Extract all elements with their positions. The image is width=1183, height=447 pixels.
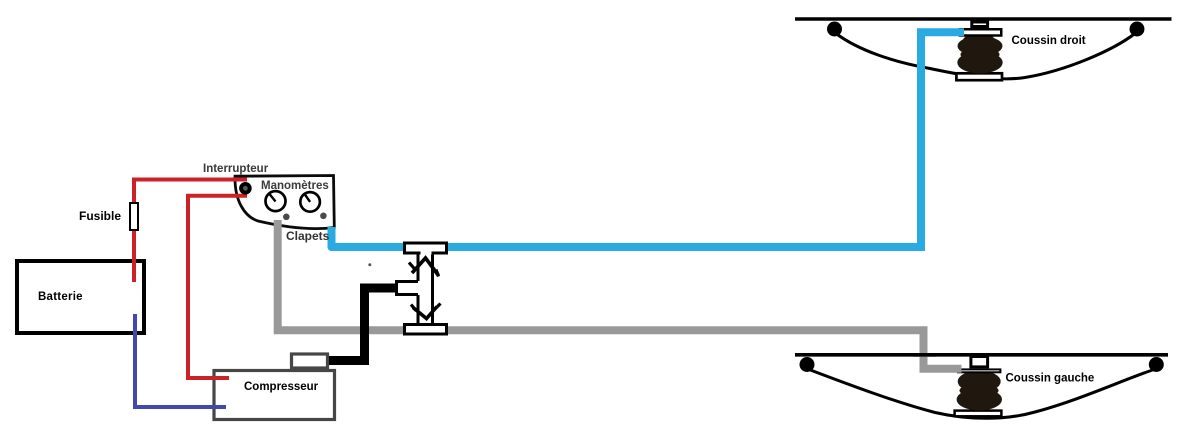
frame rail bottom right — [795, 353, 1168, 357]
air fitting bracket bottom — [971, 357, 988, 367]
svg-text:Fusible: Fusible — [79, 209, 121, 223]
fuse — [130, 203, 138, 230]
svg-text:Manomètres: Manomètres — [261, 180, 329, 192]
frame rail top right — [795, 17, 1172, 21]
shackle bushing bottom left — [800, 357, 815, 372]
leaf spring top — [836, 34, 1135, 79]
valve body left wall — [417, 255, 420, 282]
valve bottom flange — [405, 325, 447, 335]
red wire switch to compressor — [188, 196, 247, 378]
cyan air line to coussin droit — [332, 227, 926, 247]
valve top flange open bottom — [421, 251, 432, 256]
svg-text:Coussin gauche: Coussin gauche — [1006, 373, 1095, 385]
shackle bushing top left — [827, 22, 842, 37]
frame rail over gray pipe crossing — [913, 353, 936, 357]
coussin droit top plate — [960, 29, 1001, 35]
panel port dot right — [320, 213, 327, 220]
svg-text:Compresseur: Compresseur — [244, 381, 319, 393]
black air hose compressor to valve — [329, 288, 396, 361]
panel port dot left — [283, 214, 290, 221]
air bellows coussin droit — [957, 34, 1002, 74]
shackle bushing bottom right — [1149, 357, 1164, 372]
valve top flange — [405, 243, 447, 253]
valve arrow up — [412, 258, 439, 276]
blue wire battery negative — [135, 314, 226, 407]
coussin gauche top plate — [958, 369, 1000, 372]
gauge 1 — [266, 191, 286, 211]
coussin gauche bottom plate — [955, 411, 1002, 417]
stray dot — [368, 263, 371, 266]
compressor head — [292, 354, 328, 368]
gauge 2 — [300, 192, 320, 212]
gray air line to coussin gauche — [278, 220, 962, 369]
gauge panel — [235, 176, 334, 229]
red wire battery to switch — [134, 180, 247, 283]
svg-text:Interrupteur: Interrupteur — [203, 163, 269, 175]
valve body right wall — [431, 255, 434, 325]
compressor box — [214, 371, 335, 420]
switch — [239, 182, 252, 195]
valve left port stub — [397, 282, 419, 295]
air bellows coussin gauche — [957, 371, 1002, 411]
coussin droit bottom plate — [956, 73, 1002, 80]
svg-text:Batterie: Batterie — [38, 291, 83, 303]
valve arrow down — [413, 307, 437, 319]
air fitting bracket top — [972, 22, 988, 27]
leaf spring bottom — [809, 370, 1154, 419]
svg-text:Clapets: Clapets — [286, 229, 330, 243]
svg-text:Coussin droit: Coussin droit — [1012, 35, 1086, 47]
battery box — [17, 261, 144, 333]
shackle bushing top right — [1130, 22, 1145, 37]
